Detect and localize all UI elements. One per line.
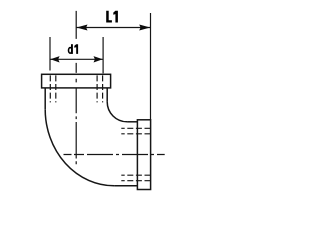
right socket rim outline (137, 120, 150, 190)
label d1 (69, 44, 79, 54)
body right line (106, 88, 108, 102)
top socket rim outline (42, 74, 111, 88)
dimension line d1 (50, 58, 103, 60)
hidden line: top socket inner-bore right (96, 75, 98, 102)
arrowhead L1 left (77, 25, 88, 31)
centerline horizontal (right socket axis) (64, 154, 165, 156)
centerline vertical (top socket axis) (75, 11, 77, 164)
extension line L1 right (150, 13, 152, 120)
hidden line: right socket inner-bore top (121, 133, 150, 135)
hidden line: top socket bore left (49, 75, 51, 102)
extension line d1 left (49, 37, 51, 71)
inner elbow arc (107, 102, 127, 122)
label L1 (106, 11, 118, 23)
hidden line: right socket bore bottom (121, 180, 150, 182)
extension line d1 right (102, 37, 104, 73)
hidden line: right socket bore top (121, 127, 150, 129)
arrowhead d1 left (50, 56, 59, 62)
arrowhead L1 right (139, 25, 150, 31)
body left line (44, 88, 46, 109)
arrowhead d1 right (94, 56, 103, 62)
outer elbow arc (45, 109, 114, 186)
hidden line: top socket inner-bore left (55, 75, 57, 102)
right socket body top line (127, 121, 137, 123)
hidden line: top socket bore right (102, 75, 104, 102)
right socket body bottom line (114, 185, 137, 187)
hidden line: right socket inner-bore bottom (121, 174, 150, 176)
dimension line L1 (76, 27, 150, 29)
